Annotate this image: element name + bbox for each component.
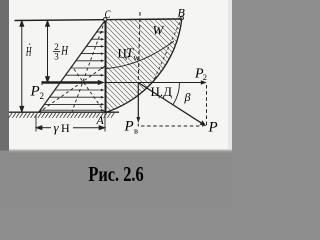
svg-text:Рис. 2.6: Рис. 2.6 <box>88 163 143 186</box>
gamma-H dimension <box>35 115 37 132</box>
resultant P vector <box>139 83 203 124</box>
median from C <box>72 21 105 113</box>
svg-text:2: 2 <box>54 42 59 52</box>
svg-text:Н: Н <box>61 121 70 135</box>
scan speck <box>29 43 31 45</box>
wall extension below ground <box>104 113 106 132</box>
svg-text:β: β <box>184 90 191 104</box>
thin centroid curve in wedge <box>106 41 174 69</box>
svg-text:H: H <box>25 46 32 59</box>
wall C-A <box>105 20 107 113</box>
right pale sliver <box>228 0 232 149</box>
vertical dashed centroid line <box>138 12 140 82</box>
dark left strip <box>0 0 9 151</box>
svg-text:P: P <box>124 119 134 135</box>
slip arc B-A <box>106 18 183 113</box>
2/3 H dimension arrow <box>46 21 50 82</box>
pressure arrow rows <box>40 31 104 112</box>
node C circle <box>104 18 107 21</box>
node B circle <box>180 16 183 19</box>
page gray background <box>0 0 232 206</box>
H dimension arrow <box>20 21 24 112</box>
label 2/3 H <box>54 42 59 62</box>
weight vector Pv <box>137 83 139 120</box>
svg-text:C: C <box>105 9 112 22</box>
svg-text:B: B <box>178 6 186 20</box>
svg-text:A: A <box>96 113 105 127</box>
svg-text:2: 2 <box>40 91 45 101</box>
svg-text:W: W <box>153 23 165 38</box>
svg-text:w: w <box>134 53 140 63</box>
svg-text:3: 3 <box>54 52 59 62</box>
svg-text:γ: γ <box>54 120 60 135</box>
white figure box <box>9 0 232 149</box>
svg-text:P: P <box>30 84 40 100</box>
P2 line through wedge to the right <box>107 82 204 84</box>
dashed parallelogram: bottom horizontal <box>141 125 204 127</box>
svg-text:P: P <box>208 120 218 136</box>
median from G <box>39 66 106 113</box>
ground hachures <box>9 113 115 118</box>
svg-text:2: 2 <box>203 72 207 82</box>
P2 bold resultant arrow on wall <box>41 81 43 85</box>
svg-text:H: H <box>60 44 68 58</box>
hypotenuse of pressure triangle <box>39 21 106 113</box>
dashed medians of pressure triangle <box>39 21 106 113</box>
top surface line C-B <box>15 19 182 21</box>
beta angle arc <box>173 83 180 105</box>
svg-text:в: в <box>134 126 138 136</box>
dashed parallelogram: right vertical <box>206 85 208 126</box>
dashed chord B to arc <box>153 18 182 83</box>
hatching of soil wedge <box>95 0 195 220</box>
ground line <box>9 111 119 113</box>
median from A <box>72 66 105 113</box>
corner tick at Pv foot <box>137 124 139 127</box>
